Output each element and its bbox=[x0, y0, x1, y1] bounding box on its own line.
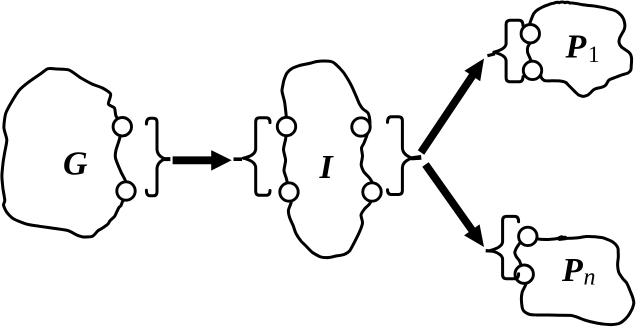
blob I bbox=[282, 61, 374, 258]
brace left of I bbox=[243, 118, 270, 196]
wire tick arrow to P1 brace bbox=[487, 52, 495, 57]
socket circle G top bbox=[113, 118, 131, 136]
blob Pn bbox=[515, 236, 634, 324]
blob P1 bbox=[527, 2, 631, 96]
socket circle I bottom-left bbox=[280, 183, 298, 201]
svg-text:1: 1 bbox=[588, 42, 600, 67]
blob G bbox=[2, 69, 127, 238]
svg-text:G: G bbox=[63, 146, 88, 183]
socket circle P1 bottom bbox=[523, 61, 541, 79]
wire tick I right brace to arrows bbox=[412, 155, 422, 160]
brace left of P1 bbox=[494, 20, 523, 82]
arrow I to Pn bbox=[422, 162, 484, 247]
socket circle I top-left bbox=[277, 117, 295, 135]
svg-text:I: I bbox=[319, 149, 335, 186]
arrow G to I bbox=[173, 150, 232, 171]
blob Pn edge blot bbox=[560, 236, 566, 241]
socket circle P1 top bbox=[521, 25, 539, 43]
svg-text:P: P bbox=[561, 252, 583, 289]
svg-text:n: n bbox=[584, 265, 596, 291]
brace left of Pn bbox=[490, 216, 518, 278]
socket circle I bottom-right bbox=[363, 183, 381, 201]
wire tick arrow to Pn brace bbox=[486, 249, 494, 253]
socket circle Pn bottom bbox=[515, 265, 533, 283]
svg-text:P: P bbox=[565, 29, 587, 66]
socket circle Pn top bbox=[519, 227, 537, 245]
brace right of I bbox=[388, 117, 412, 195]
brace right of G bbox=[146, 118, 165, 196]
arrow I to P1 bbox=[418, 59, 484, 155]
socket circle G bottom bbox=[117, 182, 135, 200]
socket circle I top-right bbox=[352, 118, 370, 136]
wire tick arrow to I left brace bbox=[234, 157, 243, 161]
wire tick G brace to arrow bbox=[164, 157, 171, 161]
